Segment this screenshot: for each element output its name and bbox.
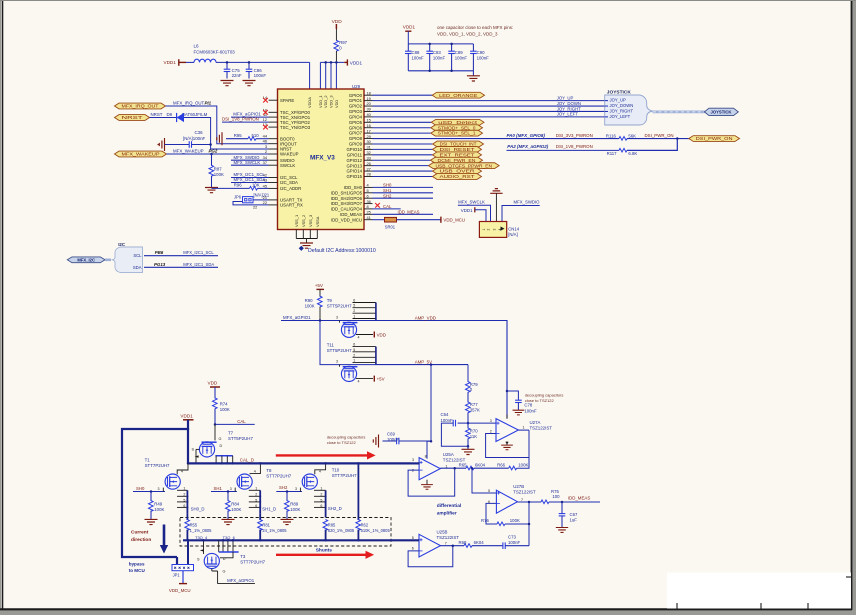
resistor R89 100K (SH2 pulldown) xyxy=(286,492,288,502)
frame tick marks bottom xyxy=(676,603,678,609)
power flag VDD (T9) xyxy=(373,332,375,338)
svg-text:SDA: SDA xyxy=(133,265,142,270)
ground below R70 xyxy=(467,446,469,449)
jumper JP1 xyxy=(172,565,194,571)
svg-text:IDD_MEAS: IDD_MEAS xyxy=(340,212,362,217)
svg-text:T9: T9 xyxy=(327,298,333,303)
wire AMP_5V rail xyxy=(376,364,468,366)
svg-text:18: 18 xyxy=(367,90,371,95)
svg-text:TSZ122IST: TSZ122IST xyxy=(530,426,553,431)
wire VDD1 to L6 xyxy=(186,61,194,63)
svg-text:4: 4 xyxy=(358,380,360,384)
svg-text:100K: 100K xyxy=(214,172,224,177)
svg-text:MFX_SWCLK: MFX_SWCLK xyxy=(234,160,261,165)
svg-text:JOY_RIGHT: JOY_RIGHT xyxy=(557,106,581,111)
wire bus to JP1 (right leg) xyxy=(187,540,189,564)
svg-text:357K: 357K xyxy=(470,408,480,413)
no-connect X on pin 13 xyxy=(263,125,268,130)
ground below R49 xyxy=(145,519,158,524)
svg-text:5: 5 xyxy=(353,304,355,308)
svg-text:CAL: CAL xyxy=(383,204,392,209)
svg-text:D8: D8 xyxy=(167,112,173,117)
capacitor C90 100nF xyxy=(472,44,474,51)
svg-text:JOY_RIGHT: JOY_RIGHT xyxy=(610,109,634,114)
port DCMI_PWR_EN xyxy=(431,157,483,163)
svg-text:100nF: 100nF xyxy=(441,418,454,423)
wire MFX_I2C1_SCL xyxy=(231,177,269,179)
resistor R66 100K xyxy=(509,466,517,470)
svg-text:VDD: VDD xyxy=(377,332,386,337)
ground below chip VSS xyxy=(300,243,313,248)
wire R116 to DSI_PWR_ON port xyxy=(627,138,693,140)
svg-text:DSI_1V8_PWRON: DSI_1V8_PWRON xyxy=(556,144,593,149)
IC U29 MFX_V3 body xyxy=(278,89,365,230)
svg-text:T3Q_6: T3Q_6 xyxy=(223,535,236,540)
svg-text:R85: R85 xyxy=(328,523,336,528)
svg-text:IDD_SH1/GPO5: IDD_SH1/GPO5 xyxy=(331,190,363,195)
svg-text:Current: Current xyxy=(131,530,149,536)
svg-text:USB_OTGFS_PPWR_EN: USB_OTGFS_PPWR_EN xyxy=(436,163,493,168)
wire SDA xyxy=(144,266,218,268)
svg-text:TSC_YN/GPO3: TSC_YN/GPO3 xyxy=(280,125,311,130)
svg-text:+5V: +5V xyxy=(377,376,385,381)
wire T8 pin4 to top bus xyxy=(250,463,260,474)
svg-text:3: 3 xyxy=(336,316,338,320)
svg-text:IDD_CAL/GPO4: IDD_CAL/GPO4 xyxy=(331,207,363,212)
svg-text:3: 3 xyxy=(490,419,492,423)
svg-text:DSI_1V8_PWRON: DSI_1V8_PWRON xyxy=(222,116,259,121)
svg-text:VDD_1: VDD_1 xyxy=(318,95,323,108)
wire SCL xyxy=(144,255,218,257)
svg-text:19: 19 xyxy=(367,96,371,101)
svg-text:GPIO4: GPIO4 xyxy=(349,114,363,119)
svg-text:C88: C88 xyxy=(412,50,420,55)
I2C harness blob xyxy=(112,247,143,273)
svg-text:100nF: 100nF xyxy=(524,408,537,413)
svg-text:R89: R89 xyxy=(290,502,298,507)
ground below C67 xyxy=(556,528,568,533)
svg-text:IDD_MEAS: IDD_MEAS xyxy=(568,496,591,501)
wire MFX_aGPIO1 to T9 gate and AMP_VDD rail xyxy=(281,320,376,322)
svg-text:JP6: JP6 xyxy=(234,195,242,200)
svg-text:T3Q_4: T3Q_4 xyxy=(195,535,208,540)
wire IDD_CAL xyxy=(373,208,401,210)
svg-text:5: 5 xyxy=(320,498,322,502)
power flag VDD_MCU (chip) xyxy=(440,217,442,223)
svg-text:VSSA: VSSA xyxy=(315,216,320,227)
wire USART_TX to JP6 xyxy=(253,199,269,201)
svg-text:VDD: VDD xyxy=(208,381,218,386)
ground above CN14 xyxy=(490,189,502,194)
svg-text:6.8K: 6.8K xyxy=(628,151,637,156)
port USB_OTGFS_PPWR_EN xyxy=(429,163,500,169)
svg-text:39: 39 xyxy=(367,107,371,112)
svg-text:C83: C83 xyxy=(433,50,441,55)
wire R65/R66 node down to U27B +input xyxy=(472,468,496,493)
wire R68 to C73 xyxy=(472,545,503,547)
svg-text:MFX_aGPIO1: MFX_aGPIO1 xyxy=(283,315,311,320)
no-connect X on IDD_SH3/GPO7 xyxy=(375,203,380,208)
svg-text:R96: R96 xyxy=(234,183,242,188)
svg-text:6: 6 xyxy=(320,504,322,508)
svg-text:CAL: CAL xyxy=(237,419,246,424)
wire USART_RX to JP6 xyxy=(233,202,269,205)
port DSI_TOUCH_INT xyxy=(433,141,484,147)
svg-text:VDD1: VDD1 xyxy=(350,60,363,65)
svg-text:MFX_IRQ_OUT: MFX_IRQ_OUT xyxy=(173,100,205,105)
resistor R65 6K04 xyxy=(466,466,474,470)
svg-text:to MCU: to MCU xyxy=(129,568,146,573)
capacitor C83 100nF xyxy=(429,44,431,51)
svg-text:Shunts: Shunts xyxy=(316,548,333,554)
capacitor C67 1uF xyxy=(561,502,563,514)
svg-text:1: 1 xyxy=(353,315,355,319)
svg-text:R66: R66 xyxy=(497,462,505,467)
svg-text:GPIO5: GPIO5 xyxy=(349,120,363,125)
svg-text:C73: C73 xyxy=(508,535,516,540)
svg-text:MFX_I2C1_SDA: MFX_I2C1_SDA xyxy=(234,177,266,182)
svg-text:36: 36 xyxy=(367,199,371,204)
port MFX_IRQ_OUT xyxy=(115,103,166,109)
resistor R117 6.8K xyxy=(619,148,627,152)
wire C73 to feedback node xyxy=(505,545,529,547)
svg-text:T1: T1 xyxy=(145,457,151,462)
svg-text:1: 1 xyxy=(320,487,322,491)
svg-text:JOY_LEFT: JOY_LEFT xyxy=(557,112,579,117)
no-connect X on SPARE pin 14 xyxy=(263,98,268,103)
svg-text:SPARE: SPARE xyxy=(280,98,294,103)
wire R75 to IDD_MEAS xyxy=(549,501,600,503)
svg-text:U27A: U27A xyxy=(530,420,541,425)
svg-text:DSI_3V3_PWRON: DSI_3V3_PWRON xyxy=(556,133,593,138)
svg-text:11K: 11K xyxy=(470,434,477,439)
svg-text:100K: 100K xyxy=(518,462,528,467)
svg-text:100nF: 100nF xyxy=(477,55,490,60)
svg-text:3: 3 xyxy=(492,229,496,231)
svg-text:2: 2 xyxy=(320,493,322,497)
svg-text:one capacitor close to each MF: one capacitor close to each MFX pins: xyxy=(437,25,513,30)
svg-text:56K: 56K xyxy=(628,133,636,138)
resistor R95 510 to BOOT0 xyxy=(226,138,248,140)
wire GPIO11 xyxy=(373,154,433,156)
svg-text:GPIO11: GPIO11 xyxy=(347,152,363,157)
I2C harness bus stub xyxy=(105,258,111,261)
svg-text:2: 2 xyxy=(353,353,355,357)
svg-text:SH2_D: SH2_D xyxy=(328,506,342,511)
shunt top bus (VDD1 measurement rail) xyxy=(188,462,411,464)
svg-text:6K04: 6K04 xyxy=(475,462,486,467)
svg-text:PG2: PG2 xyxy=(209,148,218,153)
port USB_OVER xyxy=(433,168,482,174)
T3 source arrow xyxy=(200,549,204,551)
svg-text:SH0: SH0 xyxy=(383,183,392,188)
op-amp U25B TSZ122IST xyxy=(419,534,441,557)
svg-text:IDD_MEAS: IDD_MEAS xyxy=(398,210,420,215)
svg-text:STT5P2UH7: STT5P2UH7 xyxy=(327,348,352,353)
svg-text:R70: R70 xyxy=(470,429,478,434)
wire SH2 to T10 gate xyxy=(276,491,302,493)
svg-text:820_1%_0805: 820_1%_0805 xyxy=(328,528,355,533)
svg-text:100nF: 100nF xyxy=(508,540,521,545)
svg-text:100K: 100K xyxy=(231,507,241,512)
svg-text:PG13: PG13 xyxy=(154,262,166,267)
svg-text:STT7P2UH7: STT7P2UH7 xyxy=(332,473,357,478)
svg-text:C86: C86 xyxy=(254,68,263,73)
wire MFX_WAKEUP to WAKEUP pin xyxy=(167,153,269,155)
svg-text:C78: C78 xyxy=(524,403,532,408)
svg-text:U29: U29 xyxy=(352,84,361,89)
svg-text:5: 5 xyxy=(353,348,355,352)
svg-text:SH0: SH0 xyxy=(136,486,145,491)
op-amp U27B TSZ122IST xyxy=(496,490,517,513)
wire IDD_SH1 xyxy=(373,192,434,194)
frame tick mark right xyxy=(846,576,852,578)
svg-text:BAT60JFILM: BAT60JFILM xyxy=(182,112,208,117)
svg-text:C64: C64 xyxy=(441,412,449,417)
svg-text:decoupling capacitors: decoupling capacitors xyxy=(525,393,564,398)
wire MFX_aGPIO1 down to T11 gate xyxy=(320,321,376,365)
wire U25A +in from shunt top bus xyxy=(411,462,420,464)
svg-text:31: 31 xyxy=(367,145,371,150)
T9 drain pin ladder (pins 6 5 2 1) xyxy=(353,302,376,304)
svg-text:I2C: I2C xyxy=(118,242,126,247)
joystick harness blob xyxy=(605,95,653,125)
shunt resistor R81 24_1%_0805 xyxy=(259,513,261,520)
svg-text:GPIO6: GPIO6 xyxy=(349,125,363,130)
wire T3 source to bottom bus xyxy=(203,540,205,554)
svg-text:C90: C90 xyxy=(477,50,485,55)
svg-text:TSZ122IST: TSZ122IST xyxy=(513,490,536,495)
thick bypass loop wire (left rectangle) xyxy=(122,429,188,557)
svg-text:8: 8 xyxy=(367,204,369,209)
T11 drain pin ladder (pins 6 5 2 1) xyxy=(353,346,376,348)
resistor R68 6K04 xyxy=(464,544,472,548)
power flag VDD1 (right of R97) xyxy=(344,61,347,63)
svg-text:GPIO7: GPIO7 xyxy=(349,131,363,136)
svg-text:6: 6 xyxy=(353,343,355,347)
port DSI_RESET xyxy=(433,147,482,153)
wire CAL net xyxy=(215,423,255,425)
svg-text:46: 46 xyxy=(263,139,267,144)
wire GPIO1 JOY_UP xyxy=(373,100,605,102)
svg-text:AUDIO_RST: AUDIO_RST xyxy=(440,174,475,179)
svg-text:41: 41 xyxy=(367,215,371,220)
U27A V+ supply stub xyxy=(506,415,508,419)
chip left pin stubs + names + numbers xyxy=(269,99,278,101)
svg-text:VDD_MCU: VDD_MCU xyxy=(169,588,191,593)
wire GPIO9 xyxy=(373,143,433,145)
wire GPIO7 xyxy=(373,132,431,134)
svg-text:STT7P2UH7: STT7P2UH7 xyxy=(240,559,265,564)
svg-text:4: 4 xyxy=(181,469,183,473)
wire T1 pin4 to top bus xyxy=(177,463,188,474)
wire VDD rail segment to chip VDD pins xyxy=(320,61,344,63)
svg-text:STMOD+_SEL_1: STMOD+_SEL_1 xyxy=(438,131,476,136)
wire VDD1 to CN14 xyxy=(475,210,486,222)
port DSI_PWR_ON xyxy=(689,136,740,142)
svg-text:amplifier: amplifier xyxy=(437,511,457,517)
svg-text:PB6: PB6 xyxy=(155,250,164,255)
wire SH0 to T1 gate xyxy=(133,491,165,493)
svg-text:C67: C67 xyxy=(570,512,578,517)
wire IDD_SH0 xyxy=(373,186,434,188)
svg-text:VDDA: VDDA xyxy=(307,97,312,108)
svg-text:VDD1: VDD1 xyxy=(164,60,177,65)
svg-text:1: 1 xyxy=(353,359,355,363)
svg-text:GPIO8: GPIO8 xyxy=(349,136,363,141)
T7 source arrow xyxy=(195,455,199,457)
svg-text:R97: R97 xyxy=(339,40,347,45)
port MFX_WAKEUP xyxy=(115,151,167,157)
svg-text:USART_RX: USART_RX xyxy=(280,203,303,208)
svg-text:7: 7 xyxy=(445,542,447,546)
svg-text:G: G xyxy=(223,569,226,573)
svg-text:AMP_5V: AMP_5V xyxy=(415,359,432,364)
resistor R87 100K xyxy=(211,154,213,166)
T10 ladder pins 1 2 5 6 to SH2_D xyxy=(314,489,326,491)
shunt resistor R62 510K_1%_0805 (from top bus) xyxy=(357,463,359,520)
connector CN14 [N/A] xyxy=(479,222,506,238)
svg-text:G: G xyxy=(219,437,222,441)
svg-text:STT5P2UH7: STT5P2UH7 xyxy=(228,436,253,441)
wire GPIO3 JOY_RIGHT xyxy=(373,110,605,112)
svg-text:29: 29 xyxy=(367,134,371,139)
port JOYSTICK (harness) xyxy=(704,108,738,115)
svg-text:DSI_TOUCH_INT: DSI_TOUCH_INT xyxy=(440,142,477,147)
svg-text:JOY_UP: JOY_UP xyxy=(557,95,574,100)
wire chip VDD stub xyxy=(335,62,337,89)
wire T7 source to top bus xyxy=(195,449,197,463)
U25A feedback loop xyxy=(408,468,455,496)
resistor R70 11K xyxy=(467,423,469,428)
svg-text:MFX_WAKEUP: MFX_WAKEUP xyxy=(122,152,160,157)
svg-text:37: 37 xyxy=(263,160,267,165)
no-connect X on pin 10 xyxy=(263,110,268,115)
svg-text:100nF: 100nF xyxy=(433,55,446,60)
capacitor C88 100nF xyxy=(407,44,409,51)
svg-text:R68: R68 xyxy=(459,540,467,545)
svg-text:IDD_SH2/GPO6: IDD_SH2/GPO6 xyxy=(331,196,363,201)
svg-text:22: 22 xyxy=(263,200,267,205)
svg-text:R49: R49 xyxy=(154,502,162,507)
ground below R89 xyxy=(281,519,294,524)
svg-text:GPIO10: GPIO10 xyxy=(346,147,362,152)
svg-text:R76: R76 xyxy=(481,518,489,523)
svg-text:100nF: 100nF xyxy=(455,55,468,60)
resistor R97 0 xyxy=(335,29,337,41)
resistor R96 10K to I2C_ADDR xyxy=(212,187,250,189)
svg-text:25: 25 xyxy=(367,210,371,215)
capacitor C89 100nF xyxy=(451,44,453,51)
resistor R79 0 xyxy=(467,365,469,382)
svg-text:SH0_D: SH0_D xyxy=(191,507,205,512)
svg-text:[N/A]J21: [N/A]J21 xyxy=(254,192,270,197)
svg-text:4: 4 xyxy=(319,470,321,474)
wire D8 to NRST pin xyxy=(184,118,269,150)
U25B feedback loop xyxy=(408,546,453,567)
svg-text:I2C_ADDR: I2C_ADDR xyxy=(280,186,301,191)
port MFX_I2C (harness) xyxy=(67,257,105,263)
svg-text:IDD_SH0: IDD_SH0 xyxy=(344,185,363,190)
svg-text:STMOD+_SEL_0: STMOD+_SEL_0 xyxy=(438,125,476,130)
svg-text:100nF: 100nF xyxy=(254,73,267,78)
svg-text:3: 3 xyxy=(158,487,160,491)
power flag VDD_MCU (JP1) xyxy=(179,583,187,585)
svg-text:C75: C75 xyxy=(232,68,241,73)
svg-text:5: 5 xyxy=(367,188,369,193)
svg-text:100K: 100K xyxy=(154,507,164,512)
wire SH1 to T8 gate xyxy=(211,491,237,493)
svg-text:R95: R95 xyxy=(234,133,242,138)
resistor R49 100K (SH0 pulldown) xyxy=(150,492,152,502)
diode D8 BAT60JFILM xyxy=(177,113,184,122)
resistor R74 100K xyxy=(214,387,216,398)
svg-text:SH2: SH2 xyxy=(279,485,288,490)
svg-text:R117: R117 xyxy=(607,151,618,156)
svg-text:MFX_I2C: MFX_I2C xyxy=(77,258,95,263)
svg-text:R81: R81 xyxy=(262,523,270,528)
capacitor C73 100nF xyxy=(502,542,504,549)
svg-text:JP1: JP1 xyxy=(173,573,181,578)
wire R66 up to U27A feedback node xyxy=(517,458,529,469)
svg-text:T8: T8 xyxy=(266,468,272,473)
resistor R84 100K (SH1 pulldown) xyxy=(227,492,229,502)
svg-text:U27B: U27B xyxy=(513,484,524,489)
svg-text:R62: R62 xyxy=(361,523,369,528)
ground of decoupling bank xyxy=(472,71,474,76)
svg-text:GPIO1: GPIO1 xyxy=(349,98,363,103)
ground below R87 xyxy=(205,188,218,193)
svg-text:LED_ORANGE: LED_ORANGE xyxy=(439,93,477,98)
svg-text:T10: T10 xyxy=(332,467,340,472)
wire decoupling bottom rail xyxy=(408,70,473,72)
svg-text:D: D xyxy=(223,557,226,561)
svg-text:SWCLK: SWCLK xyxy=(280,163,295,168)
wire chip VDD_3 stub xyxy=(330,62,332,89)
resistor R77 357K xyxy=(467,392,469,402)
port STMOD+_SEL_1 xyxy=(431,130,483,136)
svg-text:T3: T3 xyxy=(240,554,246,559)
svg-text:4: 4 xyxy=(358,336,360,340)
wire GPIO5 xyxy=(373,121,432,123)
svg-text:Default I2C Address:1000010: Default I2C Address:1000010 xyxy=(308,248,376,254)
port STMOD+_SEL_0 xyxy=(431,125,483,131)
svg-text:SR01: SR01 xyxy=(385,225,396,230)
svg-text:WAKEUP: WAKEUP xyxy=(280,152,299,157)
svg-text:3: 3 xyxy=(336,360,338,364)
svg-text:USB_OVER: USB_OVER xyxy=(440,169,475,174)
op-amp U27A TSZ122IST xyxy=(496,419,518,442)
svg-text:8: 8 xyxy=(425,455,427,459)
svg-text:I2C_SDA: I2C_SDA xyxy=(280,180,298,185)
svg-text:5: 5 xyxy=(488,489,490,493)
svg-text:R90: R90 xyxy=(305,298,313,303)
text Default I2C Address xyxy=(299,246,304,251)
svg-text:R84: R84 xyxy=(231,502,239,507)
port NRST xyxy=(115,115,150,121)
wire IDD_SH2 xyxy=(373,197,434,199)
wire chip VDD_2 stub xyxy=(325,62,327,89)
white overlay box (bottom right) xyxy=(667,573,851,609)
ground (sideways) for R95 xyxy=(217,132,222,145)
svg-text:STT7P2UH7: STT7P2UH7 xyxy=(266,474,291,479)
wire U25A output to R65 xyxy=(440,467,466,469)
svg-text:JOY_LEFT: JOY_LEFT xyxy=(610,114,631,119)
wire T11 pin4 to +5V flag xyxy=(356,378,373,380)
svg-text:MFX_SWCLK: MFX_SWCLK xyxy=(458,199,485,204)
decoupling capacitor C69 100nF with side ground xyxy=(373,435,378,448)
svg-text:6K04: 6K04 xyxy=(474,540,485,545)
